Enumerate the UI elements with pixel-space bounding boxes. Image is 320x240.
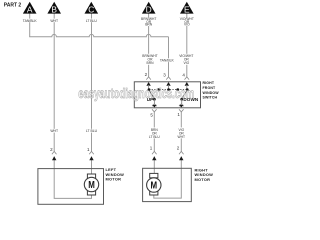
svg-text:WHT: WHT [50,129,58,133]
svg-text:WHT: WHT [178,135,186,139]
right motor M (terminals + circle) [147,173,161,195]
watermark easyautodiagnostics.com [78,86,194,101]
svg-text:B: B [51,4,57,14]
component label LEFT WINDOW MOTOR [106,167,125,182]
svg-text:MOTOR: MOTOR [195,177,211,182]
svg-text:C: C [88,4,94,14]
wire switch pin 1 to right of right motor [180,112,182,151]
switch bottom contact dot DOWN [180,98,183,101]
label BRN OR LT BLU [148,127,161,138]
connector triangle D [142,2,156,15]
svg-text:WHT: WHT [50,19,58,23]
switch DOWN contact arm [182,90,187,99]
label VIO/WHT OR VIO above switch pin 4 [179,54,194,65]
svg-text:LT BLU: LT BLU [149,135,160,139]
wire D vertical (BRN/WHT) to switch pin 2 [148,13,150,77]
connector pair above right motor pin 2 [179,151,184,160]
wire pin1 lower into right motor top [153,157,155,174]
svg-text:M: M [88,180,95,191]
wire E vertical (VIO/WHT) to switch pin 4 [186,13,188,77]
component label RIGHT FRONT WINDOW SWITCH [203,81,220,100]
connector exit at switch pin 5 [152,104,157,112]
wire C vertical (LT BLU) [91,13,93,151]
component label RIGHT WINDOW MOTOR [195,167,214,181]
svg-text:VIO: VIO [184,22,190,26]
svg-text:BRN: BRN [145,22,153,26]
svg-text:E: E [184,4,190,14]
switch bottom contact dot UP [153,98,156,101]
svg-text:FRONT: FRONT [203,86,217,90]
switch box (right front window switch) [134,82,200,108]
wire A vertical (TAN/BLK) [29,13,31,37]
svg-text:MOTOR: MOTOR [106,177,122,182]
svg-text:TAN/BLK: TAN/BLK [23,19,38,23]
label WHT under B [50,19,58,23]
svg-text:LT BLU: LT BLU [86,19,98,23]
connector triangle B [47,2,61,15]
svg-text:WINDOW: WINDOW [203,91,220,95]
svg-text:D: D [146,4,152,14]
connector pair at switch pin 2 [146,77,151,90]
switch dashed linkage line [149,89,187,91]
label VIO/WHT OR VIO under E [179,17,194,26]
wire B vertical (WHT) [53,13,55,151]
left window motor box [38,169,104,205]
label BRN/WHT OR BRN above switch pin 2 [142,54,158,65]
svg-text:PART 2: PART 2 [4,2,22,8]
svg-text:TAN/BLK: TAN/BLK [160,59,175,63]
svg-text:BRN: BRN [147,61,155,65]
left motor M (terminals + circle) [84,174,98,195]
wire TAN/BLK horizontal run with crossover hops [29,34,168,36]
connector pair at switch pin 4 [185,77,190,90]
label LT BLU under C [86,19,98,23]
svg-text:LT BLU: LT BLU [86,129,98,133]
switch UP contact arm [149,90,154,99]
wire pin2 lower into right motor box loop [154,157,182,199]
label WHT (left motor) [50,129,59,133]
switch contact dots top row [148,88,189,91]
svg-text:M: M [151,181,158,192]
connector pair above left motor pin 1 [89,151,94,160]
svg-text:easyautodiagnostics.com: easyautodiagnostics.com [78,86,194,101]
wire switch pin 5 to left of right motor [153,112,155,151]
connector triangle C [85,2,99,15]
label BRN/WHT OR BRN under D [141,17,157,26]
label TAN/BLK above switch pin 3 [159,58,174,62]
connector triangle E [180,2,194,15]
connector pair at switch pin 3 [166,77,171,90]
switch internal wire to pin 5 [153,99,155,104]
label LT BLU (left motor) [86,129,98,133]
label VIO OR WHT [176,127,187,138]
wire TAN/BLK vertical to switch pin 3 [168,37,170,77]
connector pair above left motor pin 2 [52,151,57,160]
svg-text:A: A [27,4,33,14]
svg-text:RIGHT: RIGHT [203,81,215,85]
switch internal wire to pin 1 [181,99,183,104]
right window motor box [143,168,192,201]
connector triangle A [23,2,37,15]
connector exit at switch pin 1 [179,104,184,112]
svg-text:SWITCH: SWITCH [203,96,218,100]
label TAN/BLK under A [22,19,37,23]
connector pair above right motor pin 1 [152,151,157,160]
wire C lower into left motor top [91,157,93,174]
svg-text:VIO: VIO [183,61,189,65]
wire B lower into left motor box [54,157,91,199]
